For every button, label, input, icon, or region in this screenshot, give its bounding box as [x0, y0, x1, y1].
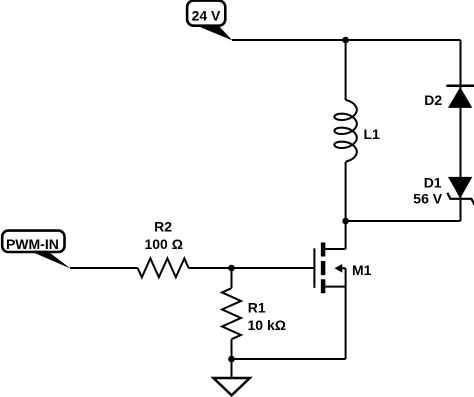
- svg-text:L1: L1: [364, 126, 381, 142]
- svg-text:M1: M1: [352, 262, 372, 278]
- svg-text:D1: D1: [424, 175, 442, 191]
- svg-text:R2: R2: [154, 219, 172, 235]
- svg-text:100 Ω: 100 Ω: [144, 236, 182, 252]
- svg-text:PWM-IN: PWM-IN: [6, 236, 59, 252]
- svg-text:56 V: 56 V: [413, 190, 442, 206]
- svg-text:R1: R1: [248, 300, 266, 316]
- svg-text:D2: D2: [424, 92, 442, 108]
- svg-text:10 kΩ: 10 kΩ: [248, 317, 286, 333]
- svg-text:24 V: 24 V: [192, 8, 221, 24]
